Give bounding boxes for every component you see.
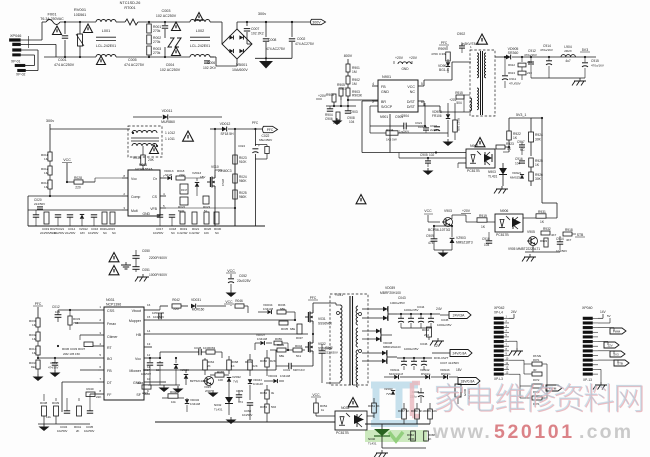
svg-text:474: 474	[428, 241, 434, 245]
resistor R902 1M	[346, 72, 360, 86]
resistor R047	[138, 381, 151, 395]
svg-text:12k: 12k	[46, 415, 51, 419]
diode N906 inner	[512, 218, 521, 227]
svg-text:NC: NC	[112, 231, 116, 235]
svg-text:Vcc: Vcc	[131, 177, 137, 181]
resistor R059 box	[274, 337, 288, 350]
capacitor C909 474	[426, 226, 437, 250]
shunt N032 TL431	[214, 390, 233, 415]
diodes VD942 VD943	[400, 368, 463, 379]
zener VZ013 18V	[192, 171, 205, 196]
svg-text:VZ032: VZ032	[232, 375, 241, 379]
resistor R907 170k	[333, 112, 340, 125]
svg-text:Vcc: Vcc	[135, 357, 141, 361]
wire DST to transformer bottom	[423, 101, 425, 106]
svg-text:102/50V: 102/50V	[84, 429, 95, 433]
resistor R012 1M	[41, 161, 52, 175]
capacitor C917 NC	[517, 140, 525, 155]
svg-text:XP-L3: XP-L3	[494, 377, 503, 381]
capacitor C027	[141, 358, 163, 385]
svg-text:C012: C012	[52, 305, 60, 309]
svg-text:CSS: CSS	[107, 309, 115, 313]
svg-text:R903K: R903K	[352, 94, 363, 98]
svg-text:12V: 12V	[607, 344, 612, 348]
resistor R903 1M	[346, 84, 363, 98]
DT wire	[62, 381, 98, 383]
svg-text:R035: R035	[281, 327, 289, 331]
svg-text:1M: 1M	[44, 157, 49, 161]
svg-text:1K: 1K	[428, 437, 432, 441]
svg-text:C906: C906	[325, 117, 333, 121]
svg-text:0.22/3W: 0.22/3W	[189, 231, 200, 235]
svg-text:T6.3A 250VAC: T6.3A 250VAC	[40, 17, 64, 21]
wire Ctimer	[80, 334, 104, 336]
zener VZ033 BZT52C18	[180, 368, 204, 385]
svg-text:NC: NC	[410, 90, 416, 94]
wire opto bottom	[458, 162, 466, 164]
svg-text:R053: R053	[260, 405, 268, 409]
svg-text:TL431: TL431	[488, 175, 498, 179]
FF wire	[90, 393, 98, 395]
resistor R912 223	[508, 56, 532, 67]
svg-text:GND: GND	[142, 212, 150, 216]
FB wire down	[80, 369, 98, 371]
svg-text:470u/16V: 470u/16V	[591, 64, 604, 68]
optocoupler N033 PC817B	[335, 406, 367, 435]
mosfet V010 PFC switch	[207, 129, 232, 226]
svg-text:10D561: 10D561	[74, 13, 87, 17]
svg-text:270k: 270k	[153, 29, 161, 33]
capacitor C914	[540, 44, 553, 78]
mosfet V031	[305, 303, 332, 334]
svg-text:C024: C024	[238, 144, 245, 148]
svg-text:22R: 22R	[173, 307, 179, 311]
wire feedback long	[362, 152, 466, 154]
svg-text:102: 102	[429, 153, 435, 157]
node wires under R906	[333, 102, 335, 106]
capacitor C916	[515, 157, 525, 166]
bottom components row PFC	[33, 196, 116, 235]
svg-text:7V5: 7V5	[386, 392, 391, 396]
svg-text:N040: N040	[368, 437, 376, 441]
svg-text:CS38: CS38	[221, 179, 225, 186]
svg-text:103/50V: 103/50V	[153, 231, 164, 235]
svg-text:RS01G: RS01G	[421, 372, 431, 376]
svg-text:CS: CS	[152, 195, 158, 199]
svg-text:C002: C002	[297, 37, 305, 41]
svg-text:C041: C041	[283, 368, 291, 372]
svg-text:22u0/25V: 22u0/25V	[237, 279, 252, 283]
svg-text:R065: R065	[424, 409, 431, 413]
svg-text:a7k3: a7k3	[142, 391, 149, 395]
flag STB xp040	[598, 360, 629, 366]
resistor C022 bleeder loop	[255, 145, 269, 159]
svg-text:5: 5	[421, 82, 423, 86]
capacitor C903	[345, 106, 358, 114]
capacitor C022 68u/450V	[238, 128, 273, 159]
svg-text:R917 20R: R917 20R	[457, 118, 461, 131]
svg-text:+20V: +20V	[462, 209, 471, 213]
svg-text:R063: R063	[208, 346, 216, 350]
svg-text:14: 14	[147, 329, 151, 333]
warning triangle B2	[475, 138, 485, 147]
capacitor C904 1n/2KV	[370, 114, 425, 134]
common-mode choke L002	[190, 20, 210, 58]
bottom ground bus PFC	[28, 225, 265, 227]
resistor R909 470K	[431, 47, 450, 61]
svg-text:Vboot: Vboot	[132, 309, 141, 313]
svg-text:Fmax: Fmax	[107, 322, 116, 326]
svg-text:470u/16V: 470u/16V	[524, 53, 537, 57]
wire mult rail	[28, 209, 122, 211]
svg-text:C916: C916	[515, 157, 523, 161]
ground arrow V903	[434, 249, 452, 251]
svg-text:VD011: VD011	[162, 109, 173, 113]
svg-text:18V: 18V	[80, 231, 85, 235]
svg-text:R042: R042	[172, 298, 180, 302]
svg-text:1N4148: 1N4148	[263, 307, 274, 311]
svg-text:102: 102	[418, 125, 423, 129]
resistor R915	[455, 91, 464, 105]
boost inductor L011 L012	[128, 126, 175, 157]
svg-text:68E: 68E	[280, 307, 285, 311]
svg-text:300v: 300v	[258, 12, 266, 16]
svg-text:2K2: 2K2	[424, 333, 430, 337]
svg-text:V903: V903	[444, 209, 452, 213]
capacitor C012 105	[52, 305, 61, 322]
wire 5V3_1 bus	[541, 57, 543, 118]
aux winding T901	[464, 95, 472, 112]
svg-text:0R: 0R	[533, 368, 536, 372]
svg-text:1E: 1E	[156, 368, 160, 372]
zener VZ031	[174, 357, 178, 385]
svg-text:HB: HB	[136, 333, 142, 337]
resistor R040 22K	[80, 387, 101, 399]
svg-text:15: 15	[147, 315, 151, 319]
svg-text:R065: R065	[217, 370, 225, 374]
resistor R061	[368, 398, 380, 418]
optocoupler N902 PC817B	[466, 144, 495, 173]
resistor R923 1K	[496, 142, 514, 151]
svg-text:C915: C915	[591, 59, 599, 63]
svg-text:F001: F001	[47, 12, 57, 17]
svg-text:XP-01: XP-01	[11, 60, 21, 64]
warning triangle A6	[195, 13, 203, 21]
capacitor C035	[84, 394, 95, 433]
svg-text:1M: 1M	[32, 337, 37, 341]
svg-text:R906: R906	[326, 93, 334, 97]
svg-text:C902: C902	[457, 32, 466, 36]
wire 5V3 drop	[535, 56, 537, 58]
svg-text:0.22/3W: 0.22/3W	[177, 231, 188, 235]
bridge rectifier VB001	[210, 22, 252, 72]
wire BR feedback vertical	[361, 101, 363, 153]
svg-text:XP-L4: XP-L4	[494, 311, 503, 315]
svg-text:4: 4	[372, 82, 374, 86]
resistor R044 5K1	[288, 344, 305, 358]
warning triangle A2	[84, 24, 93, 33]
resistor R904 1K6 5W	[370, 128, 448, 142]
labels VD039	[380, 286, 406, 305]
wire R028 to junction	[83, 181, 95, 183]
resistor R066 5K1	[411, 403, 424, 424]
resistor R933	[540, 238, 548, 247]
diode N033 inner	[354, 415, 364, 424]
ground arrow C905	[427, 168, 429, 171]
svg-text:C007: C007	[251, 27, 259, 31]
resistor R932 4K7	[541, 227, 557, 237]
ground bus under Vcc caps	[148, 384, 180, 386]
green watermark band	[365, 430, 427, 442]
svg-text:102 2K2: 102 2K2	[251, 32, 264, 36]
svg-text:1 L011: 1 L011	[165, 137, 175, 141]
svg-text:R039: R039	[52, 401, 60, 405]
resistor R917 20R vertical	[453, 103, 461, 140]
svg-text:520101: 520101	[494, 421, 575, 443]
svg-text:R933: R933	[540, 239, 548, 243]
wire xp042 pins bus	[509, 336, 514, 338]
svg-text:1 L012: 1 L012	[165, 131, 175, 135]
svg-text:1N4148: 1N4148	[190, 402, 201, 406]
svg-text:C910: C910	[482, 237, 490, 241]
svg-text:4K7: 4K7	[566, 238, 572, 242]
wire opto to left	[435, 151, 437, 153]
wire llc left verticals	[43, 394, 45, 401]
svg-text:VD039: VD039	[385, 286, 395, 290]
svg-text:7V5: 7V5	[233, 380, 239, 384]
svg-text:63P/1KV: 63P/1KV	[293, 368, 305, 372]
svg-text:960K: 960K	[239, 195, 247, 199]
svg-text:24V/0.8A: 24V/0.8A	[453, 352, 468, 356]
svg-text:104/50V: 104/50V	[153, 315, 164, 319]
svg-text:R904: R904	[386, 128, 394, 132]
svg-text:Comp: Comp	[131, 195, 140, 199]
resistor R065 10K	[210, 370, 229, 382]
svg-text:VD012: VD012	[220, 122, 231, 126]
svg-text:VD031: VD031	[191, 298, 201, 302]
ground arrow AC	[265, 57, 267, 59]
svg-text:10k: 10k	[171, 400, 176, 404]
zener VZ903 MMSZ18T3	[450, 226, 473, 250]
cyan watermark frame	[371, 384, 418, 424]
wire PFC top rail	[49, 124, 51, 129]
svg-text:C031: C031	[50, 361, 58, 365]
resistor R035 68E	[270, 321, 295, 331]
svg-text:105: 105	[55, 310, 60, 314]
wire top bus B	[116, 21, 125, 23]
svg-text:5V: 5V	[607, 314, 611, 318]
svg-text:24V/3A: 24V/3A	[453, 314, 465, 318]
svg-text:DI/D-CM/T: DI/D-CM/T	[434, 356, 448, 360]
svg-text:12V: 12V	[434, 344, 441, 348]
svg-text:474 AC250V: 474 AC250V	[54, 63, 75, 67]
svg-text:MCR100-8: MCR100-8	[389, 372, 403, 376]
svg-text:R072: R072	[533, 378, 540, 382]
ground earth M	[125, 262, 127, 265]
wire AC live top bus	[41, 22, 43, 40]
svg-text:XP046: XP046	[10, 34, 21, 38]
svg-text:C006: C006	[207, 61, 215, 65]
wire bottom rail E	[155, 421, 335, 423]
svg-text:910K: 910K	[239, 160, 247, 164]
svg-text:220: 220	[75, 186, 81, 190]
svg-text:51: 51	[204, 209, 208, 213]
svg-text:VZ033: VZ033	[384, 387, 393, 391]
transformer T031	[330, 294, 368, 387]
wire CSS	[58, 309, 104, 311]
resistor R023b	[203, 196, 211, 213]
svg-text:V031: V031	[318, 317, 326, 321]
svg-text:MMSZ18T3: MMSZ18T3	[456, 241, 473, 245]
wire opto N033 right	[367, 415, 374, 417]
svg-text:300v: 300v	[46, 119, 54, 123]
capacitor C003	[156, 9, 177, 33]
ground arrow N032	[230, 417, 232, 420]
svg-text:VCC: VCC	[407, 85, 415, 89]
optocoupler N906 PC817B	[495, 209, 523, 237]
wire VCC pin	[66, 162, 68, 178]
resistor R075 10K 2W	[455, 377, 471, 404]
svg-text:N011: N011	[139, 163, 147, 167]
resistor R921 loop	[494, 163, 496, 168]
resistor R002 270k	[147, 35, 161, 44]
net 5V xp040	[598, 314, 611, 323]
svg-text:SF: SF	[136, 393, 141, 397]
wire left vertical PFC1	[27, 196, 29, 226]
wire pfc vertical right rail	[234, 129, 236, 226]
wire to FB pin	[347, 96, 349, 100]
svg-text:C008: C008	[268, 38, 276, 42]
svg-text:BG1-C: BG1-C	[439, 68, 450, 72]
wire VFB tap	[234, 205, 236, 208]
watermark url	[432, 421, 633, 443]
capacitor C915	[582, 56, 604, 78]
capacitor C002	[255, 21, 315, 58]
svg-text:470K 0.3W: 470K 0.3W	[431, 52, 446, 56]
svg-text:VB001: VB001	[236, 63, 247, 67]
wire primary top	[313, 302, 336, 304]
resistor R925 1K	[529, 158, 543, 172]
connector XP040	[582, 306, 598, 382]
wire top bus C	[138, 21, 190, 23]
svg-text:8k2: 8k2	[31, 365, 36, 369]
diode N903 anode	[484, 154, 492, 162]
svg-text:104/50V: 104/50V	[88, 231, 99, 235]
svg-text:www.: www.	[432, 421, 492, 443]
svg-text:1000u/35V: 1000u/35V	[404, 308, 419, 312]
wire S-OCP drop	[370, 105, 378, 107]
svg-text:C039: C039	[236, 389, 244, 393]
svg-text:102 AC250V: 102 AC250V	[156, 14, 177, 18]
warning triangle A4	[172, 22, 181, 31]
svg-text:1000P/400V: 1000P/400V	[149, 273, 168, 277]
ground hatch V905	[529, 254, 531, 257]
output 12V caps	[397, 342, 441, 370]
capacitor C028 104	[150, 346, 208, 359]
svg-text:BZT52C18: BZT52C18	[190, 379, 204, 383]
svg-text:1000u/35V: 1000u/35V	[437, 323, 452, 327]
svg-text:10K: 10K	[204, 231, 209, 235]
fuse F001	[40, 12, 64, 25]
svg-text:R066: R066	[411, 409, 418, 413]
svg-text:PFC: PFC	[267, 128, 274, 132]
svg-text:NTC1SD-26: NTC1SD-26	[120, 1, 141, 5]
capacitor C907 2u/50V	[430, 124, 440, 132]
wire C022 down to gnd bus	[254, 159, 256, 226]
diode VD011 MUR860	[133, 109, 222, 133]
svg-text:VZ033: VZ033	[180, 368, 189, 372]
svg-text:1M: 1M	[44, 171, 49, 175]
resistor R024 960K	[233, 164, 248, 183]
wire return rail 5V	[531, 77, 585, 79]
svg-text:XP042: XP042	[494, 306, 505, 310]
zener VZ032 7V5	[227, 374, 241, 390]
flag 12V out	[450, 350, 472, 357]
resistor R053 5K6	[260, 399, 277, 422]
svg-text:30K: 30K	[535, 138, 542, 142]
flag 5V3 xp040	[598, 351, 625, 357]
svg-text:C043: C043	[398, 296, 406, 300]
capacitor C007	[244, 22, 264, 44]
svg-text:13: 13	[147, 342, 151, 346]
svg-text:R915: R915	[455, 91, 463, 95]
svg-text:R017: R017	[181, 188, 188, 192]
mosfet V032	[305, 333, 332, 366]
svg-text:10K: 10K	[218, 378, 223, 382]
wire V903 collector	[451, 215, 453, 219]
diode VD902	[438, 59, 450, 73]
ground hatch out24	[437, 338, 439, 341]
capacitor C041 63P/1KV	[276, 363, 313, 372]
resistor R033b	[68, 309, 81, 330]
flag PFC out	[252, 121, 278, 133]
wire V903 base node	[434, 225, 452, 227]
wire GND LLC long	[150, 381, 166, 383]
wire Vcc pin left	[144, 357, 150, 359]
diode VD043 1N4148	[264, 366, 291, 383]
svg-text:R071: R071	[533, 358, 540, 362]
wire transformer to VD012	[157, 128, 210, 130]
svg-text:V905 MMBT2222ALT1: V905 MMBT2222ALT1	[508, 247, 540, 251]
resistor R071	[509, 354, 547, 390]
svg-text:+20V: +20V	[409, 56, 418, 60]
resistor R038 12k	[40, 394, 51, 424]
svg-text:223: 223	[527, 71, 532, 75]
resistor R037 NC	[296, 324, 303, 340]
connector XP042	[494, 306, 509, 381]
flag 300V	[311, 19, 326, 24]
capacitor C039 474	[236, 389, 244, 404]
warning triangle M1	[109, 253, 119, 262]
svg-text:22K: 22K	[96, 395, 101, 399]
svg-text:68E: 68E	[279, 354, 284, 358]
svg-text:NC: NC	[520, 148, 525, 152]
output 12V diodes	[362, 350, 397, 364]
svg-text:C903: C903	[350, 110, 358, 114]
inductor L904	[561, 45, 575, 63]
svg-text:102 2KV: 102 2KV	[203, 66, 217, 70]
svg-text:2R2X: 2R2X	[564, 49, 572, 53]
capacitor C910 104	[482, 232, 492, 247]
resistor R033 1M	[29, 346, 40, 359]
svg-text:FR106: FR106	[432, 114, 442, 118]
diode VD032 1N4148	[185, 398, 201, 412]
svg-text:2K: 2K	[207, 364, 211, 368]
resistor R064 2K	[203, 358, 215, 375]
resistor R913 223	[508, 67, 532, 80]
resistor R022 590K	[178, 197, 188, 213]
resistor R924 30K	[529, 128, 544, 156]
